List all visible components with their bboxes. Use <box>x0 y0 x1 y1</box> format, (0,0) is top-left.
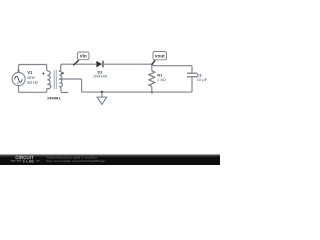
resistor R1 top lead <box>151 64 153 70</box>
wire diode to vout node <box>103 63 152 65</box>
svg-text:http://circuitlab.com/c8u23rba: http://circuitlab.com/c8u23rba8f5kq2 <box>47 159 105 163</box>
Vin flag leader <box>73 60 79 65</box>
logo lightning bolt <box>23 159 26 163</box>
secondary bottom stub wire <box>61 87 68 93</box>
V1 plus mark <box>17 70 20 73</box>
diode D1 cathode bar <box>102 61 104 68</box>
transformer core <box>54 70 56 89</box>
logo LAB dashes <box>11 160 40 162</box>
vout flag leader <box>152 60 155 65</box>
svg-text:XFMR1: XFMR1 <box>47 95 61 100</box>
secondary center tap wire <box>59 79 82 92</box>
voltage source V1 <box>12 72 25 85</box>
wire vout node to C1 <box>152 64 192 73</box>
resistor R1 zigzag <box>149 71 155 87</box>
svg-text:1N4148: 1N4148 <box>93 74 108 79</box>
vout node junction dot <box>151 64 153 66</box>
vout flag box <box>153 52 167 60</box>
capacitor C1 bottom plate <box>187 76 197 78</box>
capacitor C1 bottom lead <box>190 77 192 92</box>
ground junction dot <box>101 91 103 93</box>
primary polarity dot <box>42 73 44 75</box>
resistor R1 bottom lead <box>151 86 153 92</box>
Vin flag box <box>78 52 90 60</box>
wire primary bottom <box>19 86 47 93</box>
secondary polarity dot <box>62 72 64 74</box>
svg-text:10 µF: 10 µF <box>197 77 208 82</box>
wire primary top <box>19 65 47 73</box>
ground stem <box>101 92 103 97</box>
svg-text:V1: V1 <box>27 70 33 75</box>
diode D1 triangle <box>97 61 102 67</box>
ground rail wire <box>82 91 191 93</box>
R1 bottom junction dot <box>151 91 153 93</box>
transformer primary bottom lead <box>46 89 48 93</box>
watermark bar <box>0 156 220 165</box>
svg-text:1 kΩ: 1 kΩ <box>157 77 165 82</box>
ground triangle <box>97 97 107 104</box>
V1 minus mark <box>17 82 19 84</box>
svg-text:Vin: Vin <box>80 54 87 59</box>
transformer XFMR1 primary lead <box>46 65 48 71</box>
transformer primary coil <box>47 70 51 88</box>
svg-text:vout: vout <box>155 53 165 58</box>
svg-text:LAB: LAB <box>26 160 34 164</box>
svg-text:60 Hz: 60 Hz <box>27 80 38 85</box>
capacitor C1 top plate <box>187 72 197 74</box>
watermark bar fade <box>0 154 220 157</box>
secondary top lead <box>61 64 97 70</box>
transformer secondary coil <box>59 71 62 87</box>
V1 sine glyph <box>15 76 23 82</box>
